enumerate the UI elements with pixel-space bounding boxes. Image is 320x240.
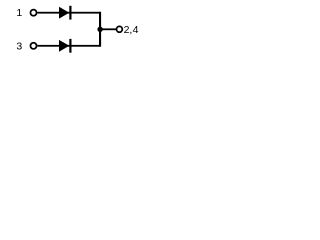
svg-text:2,4: 2,4 [124,24,139,36]
svg-text:1: 1 [16,7,22,19]
svg-text:3: 3 [16,40,22,52]
